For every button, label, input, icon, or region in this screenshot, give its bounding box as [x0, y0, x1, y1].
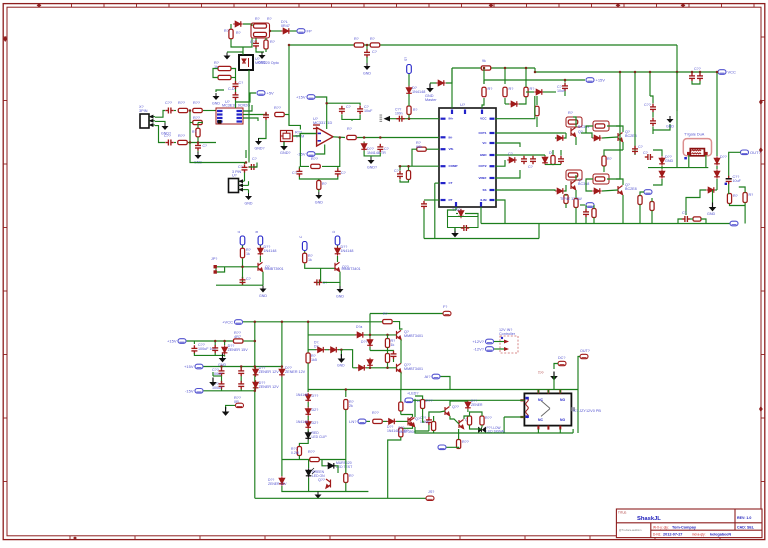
svg-text:Master: Master	[425, 98, 437, 102]
resistor R61	[407, 106, 411, 115]
relay K1	[524, 393, 571, 425]
wire	[248, 181, 250, 185]
svg-text:C??: C??	[644, 103, 651, 107]
svg-text:OUT?: OUT?	[580, 349, 590, 353]
capacitor C33	[314, 279, 322, 285]
svg-text:1N4148: 1N4148	[412, 90, 425, 94]
svg-text:R?: R?	[354, 37, 359, 41]
transistor Q13	[459, 420, 464, 429]
wire	[322, 138, 340, 167]
svg-text:4R7: 4R7	[234, 335, 241, 339]
pin	[480, 202, 482, 207]
wire	[243, 105, 252, 111]
jumper JP3	[302, 242, 307, 251]
svg-text:C??: C??	[164, 134, 171, 138]
resistor R31	[574, 199, 578, 208]
svg-text:W-X-y: qty:: W-X-y: qty:	[653, 525, 669, 529]
wire	[552, 150, 554, 155]
resistor R53	[383, 320, 393, 324]
wire	[536, 96, 538, 105]
wire	[298, 166, 300, 168]
wire	[519, 97, 526, 104]
svg-text:LN?: LN?	[349, 419, 357, 424]
pin	[490, 118, 495, 120]
svg-text:MMBT3401: MMBT3401	[404, 367, 423, 371]
resistor R4	[264, 40, 268, 49]
net flag +15Vc	[178, 339, 186, 344]
net flag LN	[358, 419, 366, 424]
wire	[652, 100, 654, 104]
transistor Q1	[571, 128, 576, 137]
wire	[470, 425, 482, 429]
pin	[441, 136, 446, 138]
resistor R46	[297, 447, 301, 456]
wire	[364, 151, 380, 156]
ground	[259, 52, 266, 59]
capacitor C19	[521, 156, 527, 164]
wire	[388, 437, 401, 498]
wire	[242, 47, 244, 52]
wire	[408, 94, 410, 104]
wire	[270, 30, 282, 32]
capacitor C9	[242, 164, 248, 172]
svg-text:R?: R?	[568, 111, 573, 115]
diode D9	[458, 209, 464, 219]
wire	[245, 150, 247, 158]
svg-text:3 PIN: 3 PIN	[232, 170, 242, 174]
wire	[243, 38, 252, 47]
resistor R23	[311, 164, 321, 168]
svg-text:1N4148: 1N4148	[264, 249, 277, 253]
svg-text:CAD: SEL: CAD: SEL	[737, 525, 755, 529]
wire	[249, 163, 257, 168]
net flag -12V	[486, 347, 494, 352]
wire	[433, 416, 435, 422]
ground	[338, 354, 346, 363]
svg-text:0.2W: 0.2W	[291, 451, 300, 455]
wire	[495, 170, 520, 178]
wire	[413, 399, 524, 401]
capacitor C36	[219, 368, 225, 376]
svg-text:OUT?: OUT?	[750, 150, 761, 155]
wire	[465, 214, 478, 217]
svg-text:GND?: GND?	[280, 151, 291, 155]
svg-text:NC: NC	[538, 398, 543, 402]
svg-text:NC: NC	[538, 418, 543, 422]
svg-text:TIP4Z 17.2W: TIP4Z 17.2W	[560, 197, 582, 201]
wire	[536, 122, 538, 127]
svg-text:A: A	[237, 230, 241, 233]
capacitor C6	[263, 112, 269, 120]
svg-text:@Tn-docu-audriom: @Tn-docu-audriom	[619, 528, 641, 532]
svg-text:+5V: +5V	[267, 91, 275, 96]
diode D34a	[355, 332, 365, 338]
svg-text:ILIM: ILIM	[481, 198, 487, 202]
transistor Q11	[410, 418, 415, 427]
wire	[481, 425, 483, 428]
ground	[224, 53, 231, 60]
wire	[387, 363, 389, 368]
wire	[240, 389, 242, 391]
svg-text:U?: U?	[460, 102, 466, 107]
jumper JP5 pads	[214, 265, 217, 274]
capacitor C14	[296, 168, 302, 176]
wire	[366, 57, 368, 63]
wire	[221, 367, 223, 369]
svg-text:R?: R?	[733, 194, 738, 198]
wire	[602, 137, 618, 138]
transistor Q3	[618, 133, 623, 142]
svg-text:T?gate DuA: T?gate DuA	[684, 133, 705, 137]
svg-text:100uF: 100uF	[420, 420, 430, 424]
svg-text:ZENER 12V: ZENER 12V	[285, 370, 306, 374]
svg-text:NO: NO	[560, 398, 565, 402]
svg-text:Vfb: Vfb	[449, 147, 454, 151]
capacitor C24	[650, 104, 656, 112]
svg-text:C?: C?	[638, 145, 643, 149]
wire	[429, 411, 445, 417]
wire	[448, 210, 457, 217]
svg-text:ZENER 12V: ZENER 12V	[259, 385, 280, 389]
wire	[333, 136, 345, 139]
capacitor C18	[461, 225, 469, 231]
net flag +12V	[486, 339, 494, 344]
svg-text:IN+: IN+	[449, 117, 454, 121]
wire	[580, 204, 585, 206]
diode D33	[387, 419, 397, 425]
wire	[304, 251, 306, 253]
resistor R51	[399, 402, 403, 411]
svg-text:C?: C?	[643, 151, 648, 155]
wire	[194, 353, 224, 355]
jumper JP2	[258, 236, 263, 245]
wire	[728, 184, 731, 194]
wire	[338, 350, 353, 368]
wire	[188, 142, 216, 144]
wire	[259, 120, 267, 139]
wire	[369, 347, 371, 351]
wire	[369, 314, 371, 322]
wire	[577, 390, 579, 434]
wire	[316, 97, 327, 129]
svg-text:C?: C?	[203, 144, 207, 148]
relay coil pins blue	[525, 397, 528, 418]
net flag OUT2	[580, 354, 588, 358]
wire	[730, 204, 746, 206]
svg-text:+15V: +15V	[167, 339, 177, 344]
capacitor C25	[650, 118, 656, 126]
wire	[226, 405, 236, 409]
wire	[504, 68, 506, 84]
svg-text:R??: R??	[485, 416, 492, 420]
resistor R39	[743, 193, 747, 203]
svg-text:Q??: Q??	[452, 405, 459, 409]
wire	[412, 149, 417, 166]
connector U4 3PIN	[229, 179, 239, 193]
svg-text:MMBT3401: MMBT3401	[404, 334, 423, 338]
wire	[559, 390, 561, 394]
capacitor C7	[233, 81, 239, 89]
svg-text:GND: GND	[480, 153, 488, 157]
ground	[368, 157, 375, 164]
connector 12V IN dashed	[500, 336, 518, 353]
wire bottom top rail	[243, 321, 383, 323]
wire	[308, 478, 310, 492]
wire	[607, 126, 623, 132]
svg-text:1k: 1k	[308, 258, 312, 262]
svg-text:BC2E8: BC2E8	[625, 187, 637, 191]
diode D27	[305, 393, 311, 403]
resistor R38	[727, 194, 731, 204]
diode D29	[305, 420, 311, 430]
wire bottom rail	[255, 497, 430, 499]
resistor R1	[229, 29, 233, 39]
wire	[634, 72, 636, 155]
ground	[667, 116, 674, 123]
svg-text:D??: D??	[720, 155, 727, 159]
wire row3	[353, 367, 357, 369]
capacitor C38	[219, 381, 225, 389]
wire	[504, 98, 506, 104]
wire	[189, 111, 191, 143]
svg-text:10uF: 10uF	[733, 179, 742, 183]
svg-text:GND: GND	[337, 364, 345, 368]
capacitor C26	[689, 73, 695, 81]
resistor R14	[178, 140, 188, 144]
transistor Q6	[335, 262, 340, 271]
wire	[224, 355, 226, 357]
wire	[458, 429, 460, 440]
wire	[221, 376, 223, 382]
pin	[490, 177, 495, 179]
wire second vertical	[281, 322, 283, 460]
svg-text:K? JZY12V0 PB: K? JZY12V0 PB	[574, 409, 602, 413]
wire	[197, 123, 199, 129]
wire	[259, 246, 261, 248]
pin	[490, 199, 495, 201]
wire	[400, 390, 402, 403]
wire	[415, 396, 423, 400]
wire	[651, 198, 653, 202]
diode D4	[436, 80, 446, 86]
ground	[315, 492, 322, 499]
svg-text:D?.: D?.	[314, 344, 319, 348]
wire	[240, 376, 242, 382]
resistor R6	[370, 43, 380, 47]
diode D35	[367, 358, 373, 368]
svg-text:R??: R??	[178, 101, 185, 105]
capacitor C15	[335, 168, 341, 176]
wire	[388, 350, 394, 352]
pin	[490, 189, 495, 191]
pin	[451, 110, 453, 115]
wire	[553, 376, 555, 390]
svg-text:R?: R?	[322, 182, 327, 186]
zener D24	[253, 367, 259, 377]
svg-text:R??: R??	[178, 134, 185, 138]
wire	[744, 203, 746, 224]
resistor R8	[482, 87, 486, 97]
wire	[318, 179, 320, 181]
pin	[455, 202, 457, 207]
wire	[235, 100, 237, 108]
wire rail2	[424, 238, 539, 240]
wire	[408, 166, 410, 170]
wire	[370, 156, 372, 157]
wire	[227, 51, 243, 53]
net flag DC	[558, 361, 566, 365]
wire	[340, 350, 342, 356]
resistor R48	[344, 474, 348, 483]
diode D16	[714, 156, 720, 166]
resistor R18	[218, 66, 231, 70]
resistor R22	[347, 135, 357, 139]
pin	[441, 148, 446, 150]
svg-text:9k: 9k	[482, 59, 486, 63]
resistor R5	[354, 43, 364, 47]
resistor R57	[432, 422, 436, 431]
wire	[335, 466, 338, 473]
svg-text:C?: C?	[341, 171, 346, 175]
diode D17	[714, 169, 720, 179]
diode D13	[555, 188, 565, 194]
svg-text:BC368: BC368	[578, 182, 589, 186]
wire	[236, 93, 257, 102]
ground	[337, 286, 344, 293]
wire box under U1	[448, 217, 479, 228]
wire	[555, 137, 556, 139]
svg-text:R?: R?	[488, 87, 493, 91]
wire	[456, 213, 458, 215]
wire	[337, 166, 339, 168]
wire	[434, 183, 436, 238]
diode D15	[592, 188, 602, 194]
svg-text:-12V?: -12V?	[473, 347, 484, 352]
wire	[204, 366, 282, 368]
pin	[441, 165, 446, 167]
capacitor C40	[391, 351, 397, 359]
wire	[243, 118, 258, 121]
diode D11	[542, 155, 548, 165]
wire	[678, 219, 682, 224]
wire	[537, 429, 539, 433]
svg-text:C?: C?	[682, 211, 687, 215]
wire	[221, 389, 223, 391]
resistor R54	[385, 339, 389, 348]
IC U2 MC33063	[216, 108, 243, 124]
wire	[364, 334, 397, 336]
relay contacts	[541, 401, 550, 417]
resistor R40	[693, 217, 701, 221]
ground flag left	[384, 116, 391, 122]
wire	[213, 69, 218, 78]
svg-text:F?: F?	[443, 305, 447, 309]
wire	[701, 219, 706, 224]
svg-text:AI?: AI?	[424, 374, 431, 379]
wire	[299, 440, 308, 446]
net flag V3	[644, 190, 652, 195]
wire	[415, 431, 504, 433]
resistor R27	[551, 156, 555, 165]
capacitor C2	[364, 49, 370, 57]
svg-text:GND?: GND?	[367, 166, 377, 170]
wire	[538, 224, 540, 239]
resistor R17	[275, 112, 285, 116]
wire	[174, 142, 176, 144]
svg-text:0R47: 0R47	[281, 24, 290, 28]
svg-text:+15V: +15V	[596, 78, 606, 83]
resistor R15	[193, 120, 203, 124]
wire	[495, 200, 505, 224]
wire	[482, 98, 484, 108]
wire	[688, 155, 690, 168]
net flag F	[443, 311, 451, 315]
ground	[260, 286, 267, 293]
net flag +15V	[307, 95, 315, 100]
wire	[322, 460, 326, 466]
wire	[213, 375, 222, 377]
transformer coil marks	[692, 150, 702, 154]
svg-text:ZENER 15V: ZENER 15V	[228, 348, 249, 352]
wire	[400, 339, 402, 363]
wire	[198, 122, 203, 124]
net flag +15Vd	[195, 364, 203, 369]
wire	[282, 459, 346, 461]
svg-text:S?: S?	[404, 57, 408, 61]
svg-text:D?a: D?a	[356, 325, 362, 329]
wire	[212, 372, 214, 376]
svg-text:3PIN: 3PIN	[139, 109, 148, 113]
wire row2	[308, 349, 316, 351]
ground Master	[426, 84, 434, 93]
wire	[716, 179, 718, 190]
capacitor C27	[697, 73, 703, 81]
wire	[281, 460, 283, 477]
wire	[525, 68, 527, 87]
wire	[578, 357, 580, 390]
diode D38 pair	[479, 428, 486, 433]
wire	[504, 417, 573, 433]
resistor R26	[406, 171, 410, 180]
resistor R19	[218, 75, 231, 79]
svg-text:ZENER: ZENER	[471, 403, 483, 407]
resistor R10	[524, 87, 528, 97]
wire	[230, 24, 232, 30]
wire	[415, 427, 429, 431]
wire	[534, 68, 536, 72]
svg-text:R??: R??	[193, 116, 200, 120]
resistor R42	[303, 253, 307, 263]
zener D31	[279, 476, 285, 486]
wire	[676, 72, 678, 168]
svg-text:B: B	[255, 231, 259, 233]
wire	[408, 115, 410, 119]
wire	[650, 96, 653, 100]
capacitor C32	[240, 277, 246, 285]
diode D19	[659, 169, 665, 179]
wire	[307, 416, 309, 420]
svg-text:C?: C?	[250, 40, 255, 44]
svg-text:GND: GND	[315, 201, 323, 205]
pin	[490, 165, 495, 167]
wire	[323, 272, 341, 283]
wire	[564, 185, 566, 191]
wire	[307, 429, 309, 432]
wire	[307, 402, 309, 407]
transistor Q4	[618, 186, 623, 195]
wire	[244, 340, 255, 342]
resistor R60	[457, 440, 461, 449]
